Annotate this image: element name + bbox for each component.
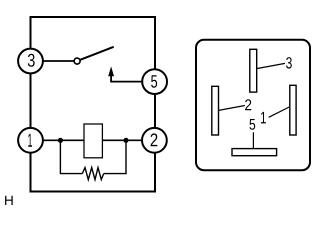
wire: movable contact to terminal 5 (111, 72, 154, 81)
terminal 3 label (28, 54, 35, 67)
terminal 5 label (151, 75, 157, 88)
resistor R (zigzag) (82, 168, 103, 180)
pin 5 label (250, 119, 256, 130)
wire: terminal 3 to switch pivot (31, 60, 78, 62)
terminal 1 label (28, 134, 32, 147)
terminal 3 (18, 49, 43, 74)
pin 3 label (286, 57, 292, 68)
pin 1 label (261, 112, 266, 124)
terminal 2 label (151, 133, 158, 146)
connector pin 5 (232, 149, 277, 156)
terminal 1 (18, 128, 43, 153)
relay coil (84, 124, 102, 158)
terminal 2 (142, 128, 167, 153)
connector pin 1 (290, 85, 296, 135)
connector pin 3 (250, 49, 257, 92)
leader line to pin 1 label (269, 107, 290, 117)
leader line to pin 5 label (252, 132, 254, 148)
junction node (right) (123, 138, 128, 143)
pin 2 label (245, 99, 251, 110)
arrow (movable contact actuator) (108, 66, 114, 76)
relay body outline (wire rectangle) (31, 17, 156, 192)
switch pivot (open contact circle) (74, 58, 80, 64)
connector pin 2 (212, 86, 219, 135)
leader line to pin 2 label (219, 106, 245, 111)
terminal 5 (142, 69, 167, 94)
connector housing outline (196, 40, 310, 170)
resistor branch wire (60, 140, 126, 173)
figure label H (5, 196, 13, 205)
switch blade (contact arm) (80, 47, 114, 60)
leader line to pin 3 label (257, 63, 285, 68)
wire: terminal 1 to terminal 2 through coil (31, 139, 155, 141)
junction node (left) (58, 138, 63, 143)
